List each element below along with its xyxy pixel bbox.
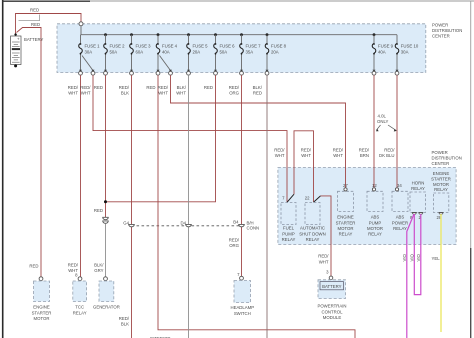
svg-text:RELAY: RELAY <box>411 186 425 191</box>
svg-text:BRN: BRN <box>360 153 369 158</box>
svg-text:WHT: WHT <box>158 91 168 96</box>
svg-text:30A: 30A <box>401 49 409 54</box>
svg-text:34: 34 <box>397 183 402 188</box>
svg-text:RED/: RED/ <box>274 148 285 153</box>
wire RED/WHT fuse1 to TCC relay <box>68 75 81 277</box>
svg-text:RED/: RED/ <box>318 254 329 259</box>
relay: engine starter motor relay (pin 27) <box>336 183 356 237</box>
svg-text:VIO: VIO <box>416 253 421 261</box>
svg-text:12: 12 <box>372 183 377 188</box>
relay: fuel pump relay (pin 7) <box>281 195 296 242</box>
svg-text:RELAY: RELAY <box>73 310 87 315</box>
svg-text:CONN: CONN <box>247 225 260 230</box>
svg-text:40A: 40A <box>378 49 386 54</box>
svg-text:4.0L: 4.0L <box>378 114 387 119</box>
svg-text:RELAY: RELAY <box>368 232 382 237</box>
svg-text:RELAY: RELAY <box>434 187 448 192</box>
svg-text:POWER: POWER <box>432 150 448 155</box>
svg-text:ORG: ORG <box>229 91 239 96</box>
svg-text:POWER: POWER <box>432 22 448 27</box>
fuse F1 30A <box>79 35 101 75</box>
wire loop fuel pump pin7 to ASD pin22 <box>287 131 314 203</box>
connector: PDC feed terminal on box edge <box>79 22 83 26</box>
svg-text:POWER: POWER <box>392 220 408 225</box>
wire RED fuse4 to interior <box>146 75 355 338</box>
svg-text:BLK: BLK <box>121 322 129 327</box>
svg-text:FUSE 5: FUSE 5 <box>193 44 209 49</box>
bulkhead dashed line <box>132 225 242 227</box>
wire YEL engine starter motor relay pin 28 <box>432 214 442 332</box>
svg-text:RELAY: RELAY <box>339 232 353 237</box>
svg-text:RED: RED <box>94 208 103 213</box>
svg-text:ORG: ORG <box>229 243 239 248</box>
svg-text:DISTRIBUTION: DISTRIBUTION <box>432 28 462 33</box>
svg-text:RED: RED <box>29 263 38 268</box>
wire RED/BLK fuse3 to bottom <box>119 75 132 338</box>
svg-text:20A: 20A <box>271 49 279 54</box>
relay: horn relay (pins 8,2) <box>410 180 426 220</box>
svg-text:WHT: WHT <box>68 91 78 96</box>
svg-text:STARTER: STARTER <box>32 310 52 315</box>
fuse F7 30A <box>240 35 262 75</box>
svg-text:FUSE 7: FUSE 7 <box>246 44 262 49</box>
svg-text:CENTER: CENTER <box>432 161 450 166</box>
relay: ABS power relay (pin 34) <box>392 183 408 231</box>
svg-text:STARTER: STARTER <box>431 177 451 182</box>
connector G4 on fuse3 wire <box>123 220 134 227</box>
svg-text:WHT: WHT <box>275 153 285 158</box>
wire RED fuse6 to splice <box>107 75 216 202</box>
fuse F10 30A <box>395 35 419 75</box>
svg-text:WHT: WHT <box>176 91 186 96</box>
svg-text:FUSE 3: FUSE 3 <box>136 44 152 49</box>
wire RED/BRN fuse9 to ABS pump motor relay <box>359 75 374 188</box>
page frame left edge <box>2 0 4 338</box>
svg-text:SHUT DOWN: SHUT DOWN <box>299 231 325 236</box>
svg-text:RED/: RED/ <box>119 85 130 90</box>
svg-text:WHT: WHT <box>333 153 343 158</box>
svg-text:BLK: BLK <box>121 91 129 96</box>
fuse F9 40A <box>372 35 394 75</box>
battery B1 <box>11 33 44 67</box>
fuse F3 60A <box>130 35 152 75</box>
svg-text:35A: 35A <box>246 49 254 54</box>
svg-text:ENGINE: ENGINE <box>337 215 354 220</box>
svg-text:BLK/: BLK/ <box>177 85 187 90</box>
power distribution center (fuse box) <box>57 22 462 72</box>
svg-text:MOTOR: MOTOR <box>433 182 449 187</box>
svg-text:22: 22 <box>305 195 310 200</box>
svg-text:30A: 30A <box>85 49 93 54</box>
svg-text:FUSE 6: FUSE 6 <box>220 44 236 49</box>
svg-text:MOTOR: MOTOR <box>338 226 354 231</box>
powertrain control module (battery pin 3) <box>317 276 346 320</box>
svg-text:RED: RED <box>253 91 262 96</box>
connector D4 on fuse5 wire <box>181 220 192 227</box>
engine starter motor <box>29 263 51 321</box>
svg-text:MOTOR: MOTOR <box>367 226 383 231</box>
fuse F2 50A <box>104 35 126 75</box>
svg-text:40A: 40A <box>162 49 170 54</box>
svg-text:RED/: RED/ <box>119 316 130 321</box>
svg-text:FUSE 9: FUSE 9 <box>378 44 394 49</box>
TCC relay <box>73 277 87 316</box>
svg-text:RED/: RED/ <box>384 148 395 153</box>
svg-text:RED: RED <box>94 85 103 90</box>
svg-text:WHT: WHT <box>81 91 91 96</box>
headlamp switch <box>230 276 254 316</box>
svg-text:FUSE 10: FUSE 10 <box>401 44 419 49</box>
svg-text:VIO: VIO <box>402 253 407 261</box>
wire RED/DK BLU fuse10 to ABS power relay <box>379 75 397 188</box>
svg-text:27: 27 <box>343 183 348 188</box>
svg-text:G4: G4 <box>123 220 129 225</box>
wire RED/ORG fuse7 to headlamp switch <box>229 75 242 277</box>
wire BLK/GRY connector to generator <box>94 224 105 277</box>
relay: ABS pump motor relay (pin 12) <box>367 183 383 237</box>
bus B+ inside PDC <box>81 26 398 36</box>
fuse F4 40A <box>156 35 178 75</box>
page frame right edge <box>470 1 472 338</box>
generator <box>93 277 120 310</box>
svg-text:50A: 50A <box>220 49 228 54</box>
svg-text:YEL: YEL <box>432 256 441 261</box>
svg-text:60A: 60A <box>136 49 144 54</box>
svg-text:HEADLAMP: HEADLAMP <box>230 305 254 310</box>
svg-text:B4: B4 <box>233 219 239 224</box>
svg-text:ENGINE: ENGINE <box>433 171 450 176</box>
svg-text:ENGINE: ENGINE <box>33 305 50 310</box>
svg-text:BLK/: BLK/ <box>94 263 104 268</box>
wire BLK/RED fuse8 to bottom <box>253 75 267 338</box>
svg-text:BLK/: BLK/ <box>253 85 263 90</box>
note 4.0L only with arrows <box>376 114 397 132</box>
svg-text:CENTER: CENTER <box>432 33 450 38</box>
node splice fuse2/fuse6 <box>104 200 107 203</box>
wire RED fuse2 to generator <box>94 75 106 217</box>
svg-text:20A: 20A <box>193 49 201 54</box>
svg-text:RED/: RED/ <box>80 85 91 90</box>
svg-text:RED: RED <box>204 85 213 90</box>
power distribution center (relay box) <box>278 150 462 245</box>
wire RED/WHT fuse4 to engine starter motor relay pin 27 <box>158 75 346 188</box>
svg-text:ONLY: ONLY <box>377 119 389 124</box>
wire RED battery positive to PDC feed <box>16 8 82 35</box>
svg-text:RED/: RED/ <box>68 263 79 268</box>
svg-text:ABS: ABS <box>396 215 405 220</box>
fuse F6 50A <box>214 35 236 75</box>
relay: automatic shut down relay (pin 22) <box>299 195 325 242</box>
svg-text:GRY: GRY <box>94 268 103 273</box>
svg-text:FUSE 1: FUSE 1 <box>85 44 101 49</box>
svg-text:RED/: RED/ <box>158 85 169 90</box>
svg-text:PUMP: PUMP <box>282 231 295 236</box>
svg-text:50A: 50A <box>110 49 118 54</box>
svg-text:GENERATOR: GENERATOR <box>93 305 120 310</box>
svg-text:FUSE 2: FUSE 2 <box>110 44 126 49</box>
in-line connector on generator feed <box>103 217 109 223</box>
svg-text:AUTOMATIC: AUTOMATIC <box>300 226 325 231</box>
svg-text:RED/: RED/ <box>229 85 240 90</box>
svg-text:RED: RED <box>30 8 39 13</box>
wire VIO horn relay pin 8 to bottom <box>402 214 414 338</box>
svg-text:RED/: RED/ <box>301 148 312 153</box>
svg-text:BATTERY: BATTERY <box>24 37 44 42</box>
svg-text:DISTRIBUTION: DISTRIBUTION <box>432 155 462 160</box>
svg-text:VIO: VIO <box>409 253 414 261</box>
wire BLK/WHT fuse5 to bottom <box>176 75 188 338</box>
svg-text:TCC: TCC <box>75 305 84 310</box>
svg-text:CONTROL: CONTROL <box>321 309 343 314</box>
svg-text:DK BLU: DK BLU <box>379 153 395 158</box>
wire VIO loop horn relay pin 8 to pin 2 <box>409 214 421 295</box>
svg-text:MOTOR: MOTOR <box>34 316 50 321</box>
svg-text:MODULE: MODULE <box>323 315 342 320</box>
svg-text:ABS: ABS <box>371 215 380 220</box>
svg-text:FUEL: FUEL <box>283 226 295 231</box>
svg-text:WHT: WHT <box>301 153 311 158</box>
svg-text:RELAY: RELAY <box>393 226 407 231</box>
svg-text:BATTERY: BATTERY <box>322 284 342 289</box>
svg-text:PUMP: PUMP <box>369 220 382 225</box>
wire RED/WHT ASD relay output to PCM battery pin 3 <box>314 196 332 276</box>
svg-text:RED/: RED/ <box>333 148 344 153</box>
svg-text:SWITCH: SWITCH <box>234 311 251 316</box>
svg-text:FUSE 8: FUSE 8 <box>271 44 287 49</box>
svg-text:FUSE 4: FUSE 4 <box>162 44 178 49</box>
fuse F5 20A <box>187 35 209 75</box>
svg-text:RED: RED <box>146 85 155 90</box>
svg-text:RED/: RED/ <box>229 238 240 243</box>
relay: engine starter motor relay (pin 28) <box>431 171 451 220</box>
connector B4 on fuse7 wire <box>233 219 259 230</box>
svg-text:WHT: WHT <box>319 259 329 264</box>
svg-text:HORN: HORN <box>412 180 425 185</box>
svg-text:RED/: RED/ <box>359 148 370 153</box>
svg-text:RED/: RED/ <box>68 85 79 90</box>
svg-text:RELAY: RELAY <box>306 237 320 242</box>
fuse F8 20A <box>265 35 287 75</box>
svg-text:RELAY: RELAY <box>282 237 296 242</box>
page frame top edge <box>2 0 474 2</box>
wire RED battery to engine starter motor <box>17 28 42 277</box>
svg-text:D4: D4 <box>181 220 187 225</box>
svg-text:STARTER: STARTER <box>336 220 356 225</box>
svg-text:POWERTRAIN: POWERTRAIN <box>317 304 346 309</box>
svg-text:RED: RED <box>31 22 40 27</box>
wire RED/WHT fuse1 to fuel pump and ASD relay <box>80 75 287 202</box>
